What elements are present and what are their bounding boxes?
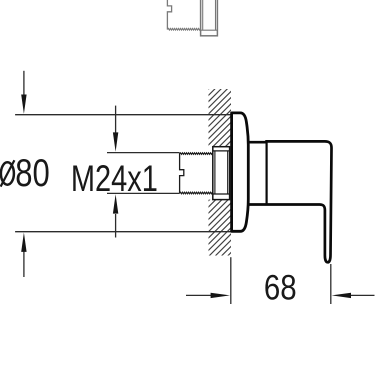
nut chamfer line top (213, 150, 230, 152)
dim ext line top (phi80) (15, 114, 231, 116)
cartridge stem threaded, bottom edge (167, 28, 200, 30)
wall section hatch (206, 86, 233, 258)
arrow up (phi80 bottom) (21, 233, 26, 252)
svg-text:68: 68 (264, 268, 297, 307)
dim line lower segment (M24x1) (115, 214, 117, 238)
ghost cartridge copy (faint, top of image) (167, 0, 217, 36)
dim line upper segment (phi80) (23, 71, 25, 96)
cartridge stem threaded, bottom edge (180, 192, 213, 194)
nut body (213, 147, 230, 200)
nut inner vertical left (202, 0, 204, 30)
dim ext line right (68) (330, 264, 332, 304)
dim ext line left (68) (230, 257, 232, 304)
label 68 (264, 268, 297, 307)
svg-text:M24x1: M24x1 (71, 159, 158, 200)
body/neck divider line (266, 142, 268, 205)
nut inner vertical right (227, 151, 229, 194)
dim line lower segment (phi80) (23, 250, 25, 277)
cartridge through wall (180, 147, 230, 200)
nut body (201, 0, 218, 36)
dim ext line top (M24x1) (107, 152, 180, 154)
nut chamfer line bottom (213, 193, 230, 195)
cartridge stem left edge with notch (167, 0, 171, 30)
arrow right-pointing (68 left) (211, 293, 230, 298)
dim ext line bottom (phi80) (15, 231, 231, 233)
dim leader left (68) (186, 294, 212, 296)
svg-text:80: 80 (15, 152, 50, 195)
cartridge stem threaded, top edge (180, 153, 213, 155)
arrow down (phi80 top) (21, 95, 26, 114)
label M24x1 (71, 159, 158, 200)
cartridge stem left edge with notch (180, 153, 184, 193)
arrow down (M24x1 top) (113, 132, 118, 151)
escutcheon plate (side profile) (232, 113, 249, 231)
dim leader right (68) (350, 294, 375, 296)
nut chamfer line bottom (201, 29, 218, 31)
arrow up (M24x1 bottom) (113, 194, 118, 213)
label phi80: digits (15, 152, 50, 195)
nut inner vertical right (215, 0, 217, 30)
dim ext line bottom (M24x1) (107, 192, 180, 194)
valve body with lever handle (248, 141, 332, 262)
dim line upper segment (M24x1) (115, 106, 117, 133)
label phi80: diameter symbol (1, 162, 14, 184)
arrow left-pointing (68 right) (332, 293, 351, 298)
nut inner vertical left (214, 151, 216, 194)
